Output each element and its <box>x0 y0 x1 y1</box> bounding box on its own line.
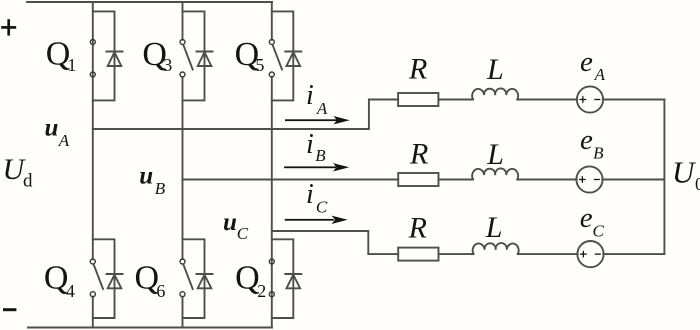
switch Q5 top contact <box>269 40 274 45</box>
wire L to source (phase C) <box>518 253 578 255</box>
wire phase B tap <box>183 179 399 181</box>
label + (top left) <box>1 19 16 35</box>
wire right rail (U0) <box>663 100 665 255</box>
svg-text:Q: Q <box>235 260 260 297</box>
polarity - inside source e_C <box>595 253 601 255</box>
diode D6 cathode bar <box>197 273 213 275</box>
svg-text:Q: Q <box>135 260 160 297</box>
diode D2 cathode bar <box>285 273 301 275</box>
svg-text:4: 4 <box>66 281 75 301</box>
svg-text:e: e <box>580 124 593 156</box>
svg-text:B: B <box>155 179 166 198</box>
switch Q1 top contact <box>90 40 95 45</box>
diode D3 branch wires <box>183 11 205 100</box>
svg-text:B: B <box>593 143 604 162</box>
source e_A circle <box>577 86 603 112</box>
wire top DC bus (+) <box>27 1 272 3</box>
wire L to source (phase A) <box>517 99 577 101</box>
wire phase C tap <box>272 231 398 254</box>
wire source to rail (phase B) <box>602 179 664 181</box>
switch Q4 top contact <box>90 259 95 264</box>
diode D5 branch wires <box>272 11 294 100</box>
polarity + inside source e_A <box>579 96 601 257</box>
svg-text:R: R <box>408 211 427 244</box>
svg-text:u: u <box>139 163 153 190</box>
polarity - inside source e_A <box>594 99 600 101</box>
svg-text:Q: Q <box>44 260 69 297</box>
switch Q4 blade <box>94 264 103 289</box>
current arrow i_C <box>285 219 334 221</box>
wire phase A tap <box>93 100 398 130</box>
diode D3 cathode bar <box>197 51 213 53</box>
switch Q5 bottom contact <box>269 72 274 77</box>
switch Q2 bottom contact <box>269 292 274 297</box>
wire R to L (phase B) <box>439 179 474 181</box>
diode D4 branch wires <box>93 239 115 318</box>
switch Q6 bottom contact <box>180 292 185 297</box>
resistor R (phase A) <box>398 93 438 106</box>
wire leg A lower <box>92 297 94 328</box>
diode D5 triangle <box>287 52 301 66</box>
diode D5 cathode bar <box>285 51 301 53</box>
source e_C circle <box>577 241 603 267</box>
svg-text:2: 2 <box>257 281 266 301</box>
svg-text:C: C <box>237 224 249 243</box>
label - (bottom left) <box>3 308 16 311</box>
wire R to L (phase A) <box>438 99 473 101</box>
wire source to rail (phase C) <box>603 253 664 255</box>
switch Q3 bottom contact <box>180 72 185 77</box>
svg-text:u: u <box>223 209 237 236</box>
wire leg C segment above Q5 <box>271 2 273 40</box>
resistor R (phase B) <box>398 173 438 186</box>
diode D6 branch wires <box>183 239 205 318</box>
svg-text:d: d <box>23 170 33 191</box>
svg-text:R: R <box>408 53 427 86</box>
wire leg C lower segment (through Q2) <box>271 77 273 328</box>
wire leg B middle segment <box>182 77 184 259</box>
source e_B circle <box>576 166 602 192</box>
wire L to source (phase B) <box>517 179 576 181</box>
svg-text:e: e <box>580 202 593 234</box>
wire leg B bottom segment <box>182 297 184 328</box>
resistor R (phase C) <box>398 248 438 261</box>
switch Q3 top contact <box>180 40 185 45</box>
wire R to L (phase C) <box>439 253 474 255</box>
current arrow i_B <box>284 166 336 168</box>
switch Q4 bottom contact <box>90 292 95 297</box>
svg-text:6: 6 <box>156 281 165 301</box>
svg-text:i: i <box>306 80 314 111</box>
svg-text:0: 0 <box>695 174 700 194</box>
diode D6 triangle <box>198 275 212 289</box>
switch Q6 blade <box>183 264 192 289</box>
switch Q5 blade <box>273 45 282 70</box>
wire bottom DC bus (-) <box>28 327 272 329</box>
diode D2 branch wires <box>272 239 294 318</box>
svg-text:i: i <box>306 179 314 210</box>
svg-text:C: C <box>593 222 605 241</box>
svg-text:L: L <box>486 138 504 171</box>
svg-text:i: i <box>306 129 314 160</box>
svg-text:L: L <box>485 211 503 244</box>
wire source to rail (phase A) <box>603 99 665 101</box>
svg-text:L: L <box>486 53 504 86</box>
svg-text:B: B <box>315 146 326 165</box>
svg-text:A: A <box>594 65 606 84</box>
diode D4 triangle <box>108 275 122 289</box>
switch Q6 top contact <box>180 259 185 264</box>
switch Q1 bottom contact <box>90 72 95 77</box>
svg-text:R: R <box>409 138 428 171</box>
wire leg B segment above Q3 <box>182 2 184 40</box>
current arrow i_A <box>284 116 350 224</box>
svg-text:u: u <box>45 115 59 142</box>
polarity + inside source e_B <box>579 179 586 181</box>
switch Q3 blade <box>183 45 192 70</box>
svg-text:e: e <box>580 46 593 78</box>
diode D1 triangle <box>108 52 122 66</box>
svg-text:U: U <box>672 154 697 189</box>
diode D2 triangle <box>287 275 301 289</box>
svg-text:A: A <box>316 99 328 118</box>
diode D1 cathode bar <box>107 51 123 53</box>
svg-text:3: 3 <box>163 55 172 75</box>
svg-text:1: 1 <box>67 55 76 75</box>
svg-text:C: C <box>316 197 328 216</box>
svg-text:A: A <box>58 131 70 150</box>
polarity + inside source e_C <box>580 253 587 255</box>
inductor L (phase C) <box>473 243 519 254</box>
polarity - inside source e_B <box>594 179 600 181</box>
inductor L (phase B) <box>472 168 518 179</box>
switch Q2 top contact <box>269 259 274 264</box>
inductor L (phase A) <box>472 88 518 99</box>
diode D1 branch wires <box>93 11 115 100</box>
svg-text:5: 5 <box>255 55 264 75</box>
diode D3 triangle <box>198 52 212 66</box>
diode D4 cathode bar <box>107 273 123 275</box>
wire leg A upper (phase A vertical) <box>92 2 94 259</box>
